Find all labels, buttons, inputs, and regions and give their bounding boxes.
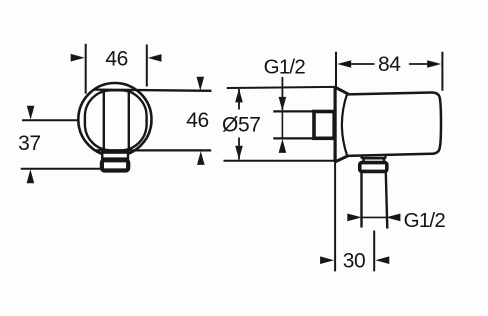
dimension 30: right arrow: [375, 256, 389, 264]
dimension G1/2 top: mid shaft: [281, 112, 283, 138]
svg-text:84: 84: [378, 53, 401, 76]
dimension 37: top arrow: [27, 106, 35, 120]
dimension D57: dim line lower segment: [238, 138, 240, 160]
dimension 37: top extension line: [22, 119, 78, 121]
dimension 84: left extension line: [335, 52, 337, 88]
dimension D57: bottom extension line: [224, 160, 336, 162]
svg-text:Ø57: Ø57: [222, 113, 261, 136]
svg-text:37: 37: [18, 132, 41, 155]
dimension 37: bottom arrow: [27, 169, 35, 183]
dimension 30: right extension line: [373, 231, 375, 272]
svg-text:46: 46: [186, 109, 209, 132]
front view top chord / extension line: [93, 90, 212, 91]
escutcheon bottom edge: [336, 156, 349, 162]
svg-text:G1/2: G1/2: [404, 209, 446, 232]
dimension G1/2 bottom: dim line: [362, 216, 386, 218]
dimension G1/2 top: down arrow: [279, 97, 287, 111]
front view bottom chord / extension line: [96, 149, 212, 151]
dimension G1/2 top: up arrow: [279, 139, 287, 153]
svg-text:46: 46: [105, 47, 128, 70]
dimension 37: bottom extension line: [21, 168, 101, 170]
front view rounded square plate: [85, 90, 147, 150]
dimension 46 top: right arrow: [148, 54, 162, 62]
front view inner left vertical: [103, 90, 105, 150]
dimension 84: left arrow: [337, 60, 351, 68]
front view outlet step ring: [102, 153, 128, 159]
inlet nut: [314, 112, 334, 139]
dimension 46 top: left arrow: [71, 54, 85, 62]
dimension D57: dim line upper segment: [238, 89, 240, 110]
body outline (side view): [348, 92, 442, 155]
svg-text:30: 30: [343, 250, 366, 273]
front view inner right vertical: [128, 90, 130, 150]
dimension D57: top extension line: [227, 87, 335, 88]
outlet neck right line: [384, 155, 386, 159]
svg-text:G1/2: G1/2: [264, 56, 306, 79]
escutcheon top edge: [336, 87, 349, 94]
inlet stub top line: [273, 110, 313, 112]
dimension 84: right arrow: [427, 60, 441, 68]
dimension 84: right extension line: [441, 52, 443, 91]
dimension G1/2 bottom: left arrow: [347, 214, 362, 222]
front view escutcheon circle: [78, 83, 151, 156]
escutcheon concave profile arc: [342, 94, 347, 156]
dimension G1/2 top: leader shaft: [281, 77, 283, 110]
dimension 30: left arrow: [320, 256, 334, 264]
dimension 46 top: left extension line: [85, 44, 87, 94]
dimension 46 middle: top arrow: [197, 77, 205, 91]
dimension 46 top: right extension line: [146, 45, 148, 87]
dimension 84: left dim line: [348, 63, 375, 65]
escutcheon wall line (side view): [334, 87, 337, 162]
dimension 30: left extension line (wall line continuation): [334, 162, 336, 272]
outlet step ring: [364, 158, 385, 163]
inlet stub bottom line: [273, 137, 313, 139]
dimension D57: up arrow: [235, 89, 243, 103]
dimension G1/2 bottom: right arrow: [386, 214, 401, 222]
dimension D57: down arrow: [235, 146, 243, 160]
dimension 46 middle: bottom arrow: [197, 151, 205, 165]
front view outlet collar: [102, 160, 128, 170]
dimension 84: right dim line: [409, 63, 430, 65]
outlet pipe left line: [360, 172, 362, 227]
outlet neck left line: [361, 155, 363, 159]
outlet collar: [360, 163, 387, 172]
outlet pipe right line: [386, 172, 388, 228]
